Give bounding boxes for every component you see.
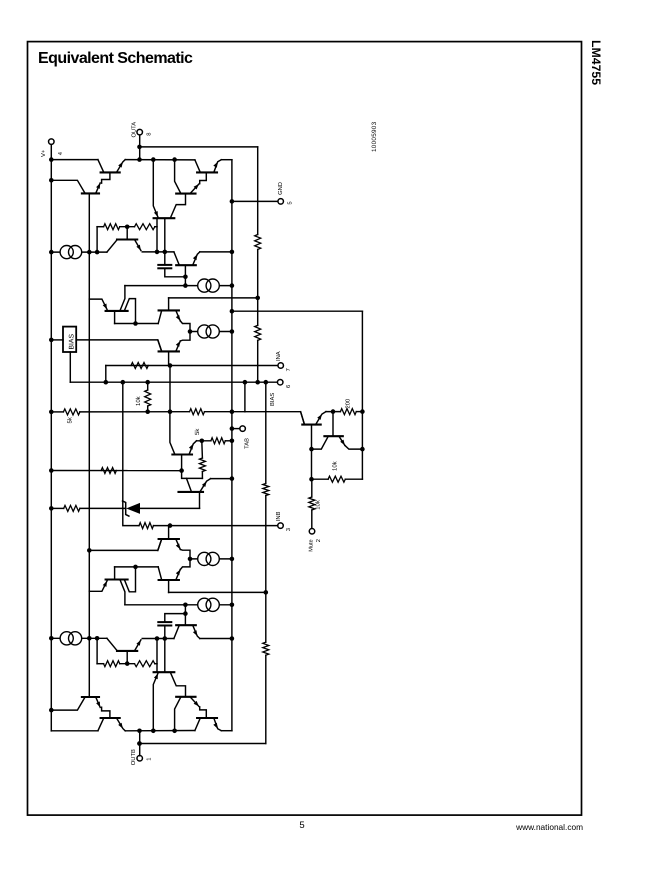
collector line y323 (channel A) (115, 321, 159, 326)
svg-text:10k: 10k (331, 460, 338, 471)
INA terminal (278, 363, 284, 369)
label GND (277, 182, 294, 205)
node line1 B (169, 590, 269, 595)
OUTB wire (137, 741, 266, 746)
label Mute (309, 539, 322, 552)
base resistors R pair (channel A) (97, 224, 157, 252)
transistor Q6 (channel A) (174, 252, 200, 288)
svg-text:7: 7 (286, 368, 292, 371)
mirror line y285 (channel B mirrored) (125, 603, 234, 608)
INB wire (154, 523, 279, 528)
svg-text:5k: 5k (194, 428, 201, 435)
svg-text:200: 200 (345, 399, 352, 409)
current source CS1 (channel A) (60, 246, 82, 259)
transistor Q3 (channel A) (107, 227, 141, 252)
wire y470 (49, 468, 184, 473)
svg-text:2: 2 (315, 539, 322, 542)
bus dot V+ (49, 157, 54, 162)
schematic id (371, 121, 378, 152)
V+ terminal (49, 139, 55, 145)
diffA lower base (168, 351, 170, 365)
transistor Q5 (channel B mirrored) (170, 672, 199, 731)
svg-text:10k: 10k (315, 499, 322, 510)
svg-text:1: 1 (146, 758, 152, 761)
page number (280, 820, 324, 831)
diff transistor Q10 (channel B mirrored) (158, 559, 190, 593)
svg-text:V+: V+ (41, 149, 47, 157)
dual-collector PNP Q9 (channel B mirrored) (89, 567, 135, 605)
node line y252 mid (channel A) (142, 250, 174, 255)
node line y252 right (channel A) (200, 250, 234, 255)
svg-text:BIAS: BIAS (269, 393, 276, 406)
svg-text:3: 3 (285, 528, 292, 531)
node line1 A (169, 296, 260, 301)
mirror line y285 (channel A) (125, 283, 234, 288)
transistor Q6 (channel B mirrored) (174, 603, 200, 639)
svg-text:INB: INB (276, 511, 282, 521)
BIAS box (63, 327, 76, 352)
mute divider (309, 449, 362, 482)
transistor Q5b (channel A) (153, 160, 174, 252)
svg-text:6: 6 (285, 385, 292, 388)
label BIAS (269, 385, 292, 406)
resistor 10k A (145, 382, 151, 414)
5k line (49, 382, 305, 424)
page border frame (28, 42, 582, 816)
TAB terminal (240, 426, 246, 432)
resistor vertical (199, 441, 205, 479)
bias-to-INB rail (123, 382, 139, 525)
GND wire (230, 199, 278, 204)
emitter resistor wire (197, 438, 235, 444)
footer url (483, 822, 583, 832)
svg-text:GND: GND (277, 182, 284, 195)
current source CS1 wire (channel B mirrored) (49, 636, 107, 641)
label INB (276, 511, 292, 531)
svg-text:10k: 10k (135, 395, 142, 406)
OUTB feedback rail x265 (263, 382, 269, 743)
current source CS1 (channel B mirrored) (60, 632, 82, 645)
label INA (276, 351, 292, 371)
label 5k left (67, 416, 74, 423)
TAB wire (230, 426, 240, 431)
svg-text:OUTB: OUTB (130, 749, 137, 765)
diff transistor Q11 (channel B mirrored) (158, 539, 193, 561)
diff transistor Q11 (channel A) (158, 329, 193, 351)
svg-text:OUTA: OUTA (130, 122, 137, 138)
transistor Q8 (170, 412, 197, 471)
wire y311 (230, 309, 363, 314)
current source CS3 (channel A) (198, 279, 220, 292)
label TAB (244, 438, 250, 449)
OUTA terminal (channel A) (137, 129, 143, 135)
transistor Q3 (channel B mirrored) (107, 638, 141, 663)
INA wire (106, 363, 278, 382)
label 5k mid (194, 428, 201, 435)
bias line B side (87, 539, 162, 553)
transistor Q4 (channel A) (195, 160, 221, 184)
Mute terminal (309, 529, 315, 535)
svg-text:BIAS: BIAS (68, 334, 75, 350)
zener wire (49, 505, 126, 511)
svg-text:8: 8 (146, 133, 153, 136)
transistor Q5 (channel A) (170, 160, 199, 219)
BIAS line (70, 380, 277, 385)
transistor Q13 (309, 412, 365, 452)
OUTA line (140, 146, 258, 148)
resistor 10k mute (309, 479, 315, 528)
side product name LM4755 (589, 40, 603, 85)
transistor Q12 (301, 412, 326, 450)
BIAS box wires (49, 338, 162, 383)
tail wire (channel B mirrored) (190, 557, 234, 562)
diff transistor Q10 (channel A) (158, 298, 190, 332)
current source CS1 wire (channel A) (49, 250, 107, 255)
tail wire (channel A) (190, 329, 234, 334)
title (38, 50, 192, 68)
dual-collector PNP Q9 (channel A) (89, 286, 135, 324)
output bus piece mid (channel A) (125, 159, 195, 161)
BIAS terminal (277, 379, 283, 385)
svg-text:TAB: TAB (244, 438, 250, 449)
svg-text:Mute: Mute (309, 539, 315, 551)
label V+ (41, 149, 64, 157)
current source CS2 (channel A) (198, 325, 220, 338)
zener diode D1 (123, 501, 200, 516)
current source CS2 (channel B mirrored) (198, 552, 220, 565)
label 10k mute upper (331, 460, 338, 471)
resistor y470 (101, 468, 116, 474)
INB terminal (278, 523, 284, 529)
INA to 5k line (168, 366, 173, 415)
output bus piece left (channel B mirrored) (51, 730, 98, 732)
svg-text:5: 5 (288, 201, 294, 204)
rail x232 (231, 160, 233, 731)
BIAS box label (68, 334, 75, 350)
base resistors R pair (channel B mirrored) (97, 638, 157, 666)
output bus piece mid (channel B mirrored) (125, 730, 195, 732)
OUTA feedback rail x257 (255, 147, 261, 382)
resistor R-INB (139, 523, 154, 529)
transistor Q5b (channel B mirrored) (153, 639, 174, 731)
transistor Q1 (channel B mirrored) (98, 707, 125, 731)
collector line y323 (channel B mirrored) (115, 565, 159, 570)
node line y252 right (channel B mirrored) (200, 636, 234, 641)
node line y252 mid (channel B mirrored) (142, 636, 174, 641)
bus dots (channel A) (137, 157, 177, 162)
rail x89 (88, 193, 90, 697)
output bus piece right (channel B mirrored) (221, 730, 232, 732)
V+ rail (50, 144, 52, 731)
OUTB terminal (137, 731, 143, 761)
transistor Q2 (channel B mirrored) (49, 697, 100, 712)
wire 200 (326, 409, 365, 415)
output bus piece right (channel A) (221, 159, 232, 161)
svg-text:10005903: 10005903 (371, 121, 378, 152)
svg-text:INA: INA (276, 351, 282, 361)
transistor Q7 (179, 471, 235, 509)
label OUTB (130, 749, 153, 765)
label 10k left (135, 395, 142, 406)
transistor Q1 (channel A) (98, 160, 125, 184)
mute rail x362 (361, 311, 363, 479)
label 10k mute lower (315, 499, 322, 510)
OUTA lead (channel A) (137, 135, 142, 160)
resistor R-INA (131, 363, 148, 369)
current source CS3 (channel B mirrored) (198, 598, 220, 611)
label 200 (345, 399, 352, 409)
capacitor C1 (channel A) (158, 252, 185, 277)
output bus piece left (channel A) (51, 159, 98, 161)
label OUTA (130, 122, 152, 138)
transistor Q2 (channel A) (49, 178, 100, 193)
svg-text:5k: 5k (67, 416, 74, 423)
transistor Q4 (channel B mirrored) (195, 707, 221, 731)
diffB upper base (168, 526, 170, 539)
capacitor C1 (channel B mirrored) (158, 614, 185, 639)
bus dots (channel B mirrored) (137, 729, 177, 734)
GND terminal (278, 199, 284, 205)
